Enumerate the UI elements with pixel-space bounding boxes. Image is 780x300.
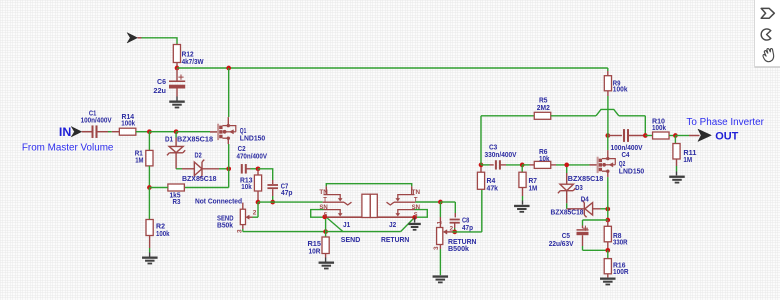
svg-text:1M: 1M <box>135 156 143 165</box>
svg-text:100k: 100k <box>613 85 628 94</box>
svg-text:SN: SN <box>319 204 327 211</box>
svg-text:47p: 47p <box>462 223 473 232</box>
svg-text:Not Connected: Not Connected <box>195 197 242 206</box>
svg-text:D4: D4 <box>581 195 590 204</box>
svg-text:IN: IN <box>59 127 71 139</box>
svg-text:3: 3 <box>433 246 440 250</box>
svg-text:100k: 100k <box>156 229 170 238</box>
svg-text:B50k: B50k <box>217 220 234 229</box>
svg-text:2M2: 2M2 <box>537 103 550 112</box>
svg-text:TN: TN <box>412 189 420 196</box>
svg-text:B500k: B500k <box>448 244 470 253</box>
svg-text:BZX85C18: BZX85C18 <box>568 174 604 183</box>
svg-text:22u/63V: 22u/63V <box>549 239 575 248</box>
svg-text:330n/400V: 330n/400V <box>485 150 518 159</box>
svg-text:BZX85C18: BZX85C18 <box>177 134 213 143</box>
svg-text:LND150: LND150 <box>619 166 644 175</box>
svg-text:OUT: OUT <box>715 130 738 142</box>
svg-text:47k: 47k <box>487 184 499 193</box>
svg-text:R3: R3 <box>173 197 181 206</box>
svg-text:C4: C4 <box>622 150 631 159</box>
svg-text:BZX85C18: BZX85C18 <box>182 174 217 183</box>
svg-text:SEND: SEND <box>341 235 361 244</box>
svg-text:47p: 47p <box>281 188 293 197</box>
svg-text:TN: TN <box>319 189 327 196</box>
svg-text:J2: J2 <box>389 220 396 229</box>
svg-text:4k7/3W: 4k7/3W <box>182 57 205 66</box>
svg-text:10R: 10R <box>309 246 321 255</box>
svg-text:SN: SN <box>412 204 420 211</box>
svg-text:22u: 22u <box>153 86 166 95</box>
svg-text:J1: J1 <box>343 220 351 229</box>
svg-text:100n/400V: 100n/400V <box>81 115 113 124</box>
svg-text:S: S <box>324 211 328 218</box>
svg-text:1: 1 <box>437 221 444 225</box>
svg-text:From Master Volume: From Master Volume <box>22 142 114 153</box>
svg-text:330R: 330R <box>613 238 628 247</box>
svg-text:D3: D3 <box>575 183 583 192</box>
svg-text:S: S <box>414 211 418 218</box>
svg-text:C6: C6 <box>157 77 166 86</box>
svg-text:470n/400V: 470n/400V <box>237 152 268 161</box>
svg-text:100k: 100k <box>652 123 667 132</box>
svg-text:D2: D2 <box>195 151 202 160</box>
svg-text:1M: 1M <box>529 184 538 193</box>
svg-text:10k: 10k <box>539 154 550 163</box>
svg-text:1M: 1M <box>683 155 692 164</box>
svg-text:100k: 100k <box>121 119 135 128</box>
svg-text:D1: D1 <box>165 134 174 143</box>
svg-text:RETURN: RETURN <box>381 235 409 244</box>
svg-text:To Phase Inverter: To Phase Inverter <box>686 117 764 128</box>
svg-text:BZX85C18: BZX85C18 <box>551 208 584 217</box>
svg-text:3: 3 <box>236 229 243 233</box>
svg-text:10k: 10k <box>241 182 252 191</box>
svg-text:100R: 100R <box>613 267 629 276</box>
svg-text:2: 2 <box>253 209 257 216</box>
svg-text:LND150: LND150 <box>240 133 265 142</box>
